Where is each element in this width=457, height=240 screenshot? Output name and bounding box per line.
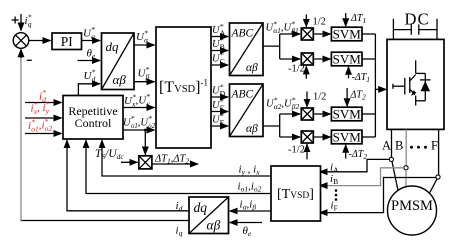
svg-text:U*q: U*q (83, 25, 95, 41)
wire UE* (211, 111, 228, 113)
svg-text:DC: DC (405, 10, 430, 29)
svg-text:Control: Control (75, 116, 112, 130)
wire id* red reference input (25, 102, 62, 104)
multiplier 4 (301, 131, 313, 143)
wire iB measurement into TVSD gray (320, 168, 404, 186)
svg-text:U*F: U*F (212, 111, 224, 127)
block SVM3 (331, 107, 362, 122)
wire 1/2 into multiplier 1 (305, 15, 307, 27)
wire phase A from inverter (391, 129, 393, 157)
svg-text:αβ: αβ (207, 218, 221, 233)
wire iq arrow into summing junction (20, 49, 22, 58)
block ABC/alphabeta 1 (230, 23, 264, 76)
multiplier 3 (301, 108, 313, 120)
transistor IGBT with diode (393, 60, 431, 105)
wire PI to dq1, Uq* (82, 40, 101, 42)
svg-text:B: B (395, 139, 403, 153)
wire iF measurement into TVSD (320, 178, 436, 213)
wire iq feedback horizontal (20, 220, 189, 222)
wire bus to inverter (375, 88, 386, 90)
svg-text:i*x, i*y: i*x, i*y (31, 100, 50, 116)
svg-text:U*β: U*β (138, 65, 150, 81)
wire -deltaT1 into SVM2 (348, 67, 350, 79)
wire Ud* from repetitive control top to dq1 (78, 84, 100, 96)
wire ABC1 output with split to multipliers 1,2 (263, 45, 280, 47)
wire phase F from inverter (438, 129, 440, 175)
wire phase A to PMSM (392, 162, 398, 191)
block SVM1 (331, 27, 362, 42)
wire deltaT1,deltaT2 output arrow (152, 163, 198, 165)
label minus sign (27, 59, 32, 61)
wire repetitive control to TVSD-1, Uo1*,Uo2* (123, 129, 155, 131)
svg-text:ΔT1,ΔT2: ΔT1,ΔT2 (154, 154, 189, 166)
wire 1/2 into multiplier 3 (306, 92, 308, 107)
svg-text:ABC: ABC (231, 28, 254, 40)
wire UD* (211, 96, 228, 98)
svg-text:dq: dq (106, 39, 120, 54)
wire Uo line down to multiplier (144, 130, 146, 155)
wire UF* (211, 125, 228, 127)
wire theta-e into dq2 (230, 222, 262, 224)
svg-text:1/2: 1/2 (313, 17, 326, 28)
wire iA measurement into TVSD (320, 159, 390, 171)
svg-text:SVM: SVM (333, 27, 362, 42)
svg-text:-1/2: -1/2 (288, 145, 305, 156)
svg-text:U*C: U*C (212, 50, 225, 66)
label plus sign (12, 17, 19, 24)
wire UB* (211, 50, 228, 52)
wire dq1 to TVSD-1, Ualpha* (134, 44, 155, 46)
wire -1/2 into multiplier 2 (305, 66, 307, 78)
wire iq* reference input arrow (20, 14, 22, 31)
wire -1/2 into multiplier 4 (306, 144, 308, 159)
summing junction (13, 33, 29, 49)
multiplier for delta T (139, 156, 152, 169)
block TVSD (271, 166, 321, 221)
svg-text:SVM: SVM (333, 52, 362, 67)
wire ABC2 output with split to multipliers 3,4 (263, 125, 280, 127)
block SVM4 (331, 130, 362, 145)
block TVSD inverse (156, 27, 211, 148)
multiplier 1 (301, 28, 313, 40)
svg-text:U*d: U*d (84, 68, 96, 84)
block SVM2 (331, 52, 362, 67)
wire dq1 to TVSD-1, Ubeta* (134, 81, 155, 83)
svg-text:ABC: ABC (231, 89, 254, 101)
wire ialpha,ibeta into dq2 (230, 210, 271, 212)
wire UC* (211, 64, 228, 66)
block PI controller (52, 33, 82, 50)
wire phase B to PMSM gray (405, 170, 407, 187)
svg-text:dq: dq (194, 200, 208, 215)
svg-text:U*α2,U*β2: U*α2,U*β2 (266, 95, 300, 111)
dots vertical between iB and iF (335, 189, 338, 201)
wire Ts/Udc into multiplier (121, 161, 137, 163)
wire io1,io2 feedback to repetitive control (86, 140, 271, 193)
wire summing junction to PI (29, 40, 51, 42)
svg-text:-1/2: -1/2 (288, 64, 305, 75)
wire deltaT2 into SVM3 (346, 88, 348, 106)
dots between B and F (410, 146, 427, 149)
wire repetitive control to TVSD-1, Ux*,Uy* (123, 107, 155, 109)
wire SVM output bus (362, 34, 375, 137)
svg-text:U*x,U*y: U*x,U*y (124, 92, 150, 108)
node phase F tap (436, 175, 440, 179)
svg-text:1/2: 1/2 (313, 92, 326, 103)
node phase B tap (404, 166, 408, 170)
node junction on Uo line (144, 129, 147, 132)
wire deltaT1 into SVM1 (345, 13, 347, 26)
svg-text:SVM: SVM (333, 107, 362, 122)
wire iq feedback gray vertical (20, 56, 22, 221)
svg-text:F: F (431, 139, 438, 153)
wire phase F to PMSM (430, 179, 437, 193)
wire multiplier1 to SVM1 (313, 33, 330, 35)
svg-text:A: A (382, 139, 391, 153)
block dq/alphabeta transform 1 (102, 33, 135, 90)
wire multiplier3 to SVM3 (313, 113, 330, 115)
svg-text:U*α: U*α (136, 29, 149, 45)
block PMSM motor (388, 186, 437, 235)
svg-text:U*α1,U*β1: U*α1,U*β1 (266, 19, 299, 35)
wire UA* (211, 36, 228, 38)
wire multiplier4 to SVM4 (313, 136, 330, 138)
svg-text:αβ: αβ (113, 72, 127, 87)
block dq/alphabeta transform 2 (189, 197, 229, 234)
wire iy,ix feedback to repetitive control (102, 140, 271, 176)
wire phase B from inverter gray (405, 129, 407, 165)
svg-text:αβ: αβ (246, 62, 258, 74)
svg-text:PI: PI (61, 34, 74, 49)
svg-text:i*q: i*q (25, 13, 32, 29)
wire theta-e into dq1 (78, 60, 101, 62)
block inverter (387, 39, 444, 129)
DC link capacitor (393, 19, 437, 40)
wire io1*,io2* red reference input (25, 133, 62, 135)
wire id feedback to repetitive control (67, 140, 189, 211)
multiplier 2 (301, 53, 313, 65)
wire multiplier2 to SVM2 (313, 58, 330, 60)
svg-text:PMSM: PMSM (391, 198, 433, 214)
block ABC/alphabeta 2 (230, 84, 264, 137)
node phase A tap (389, 157, 393, 161)
svg-text:SVM: SVM (333, 130, 362, 145)
wire -deltaT2 into SVM4 (345, 145, 347, 159)
wire ix*,iy* red reference input (25, 117, 62, 119)
block repetitive control (63, 96, 123, 140)
svg-text:αβ: αβ (246, 123, 258, 135)
